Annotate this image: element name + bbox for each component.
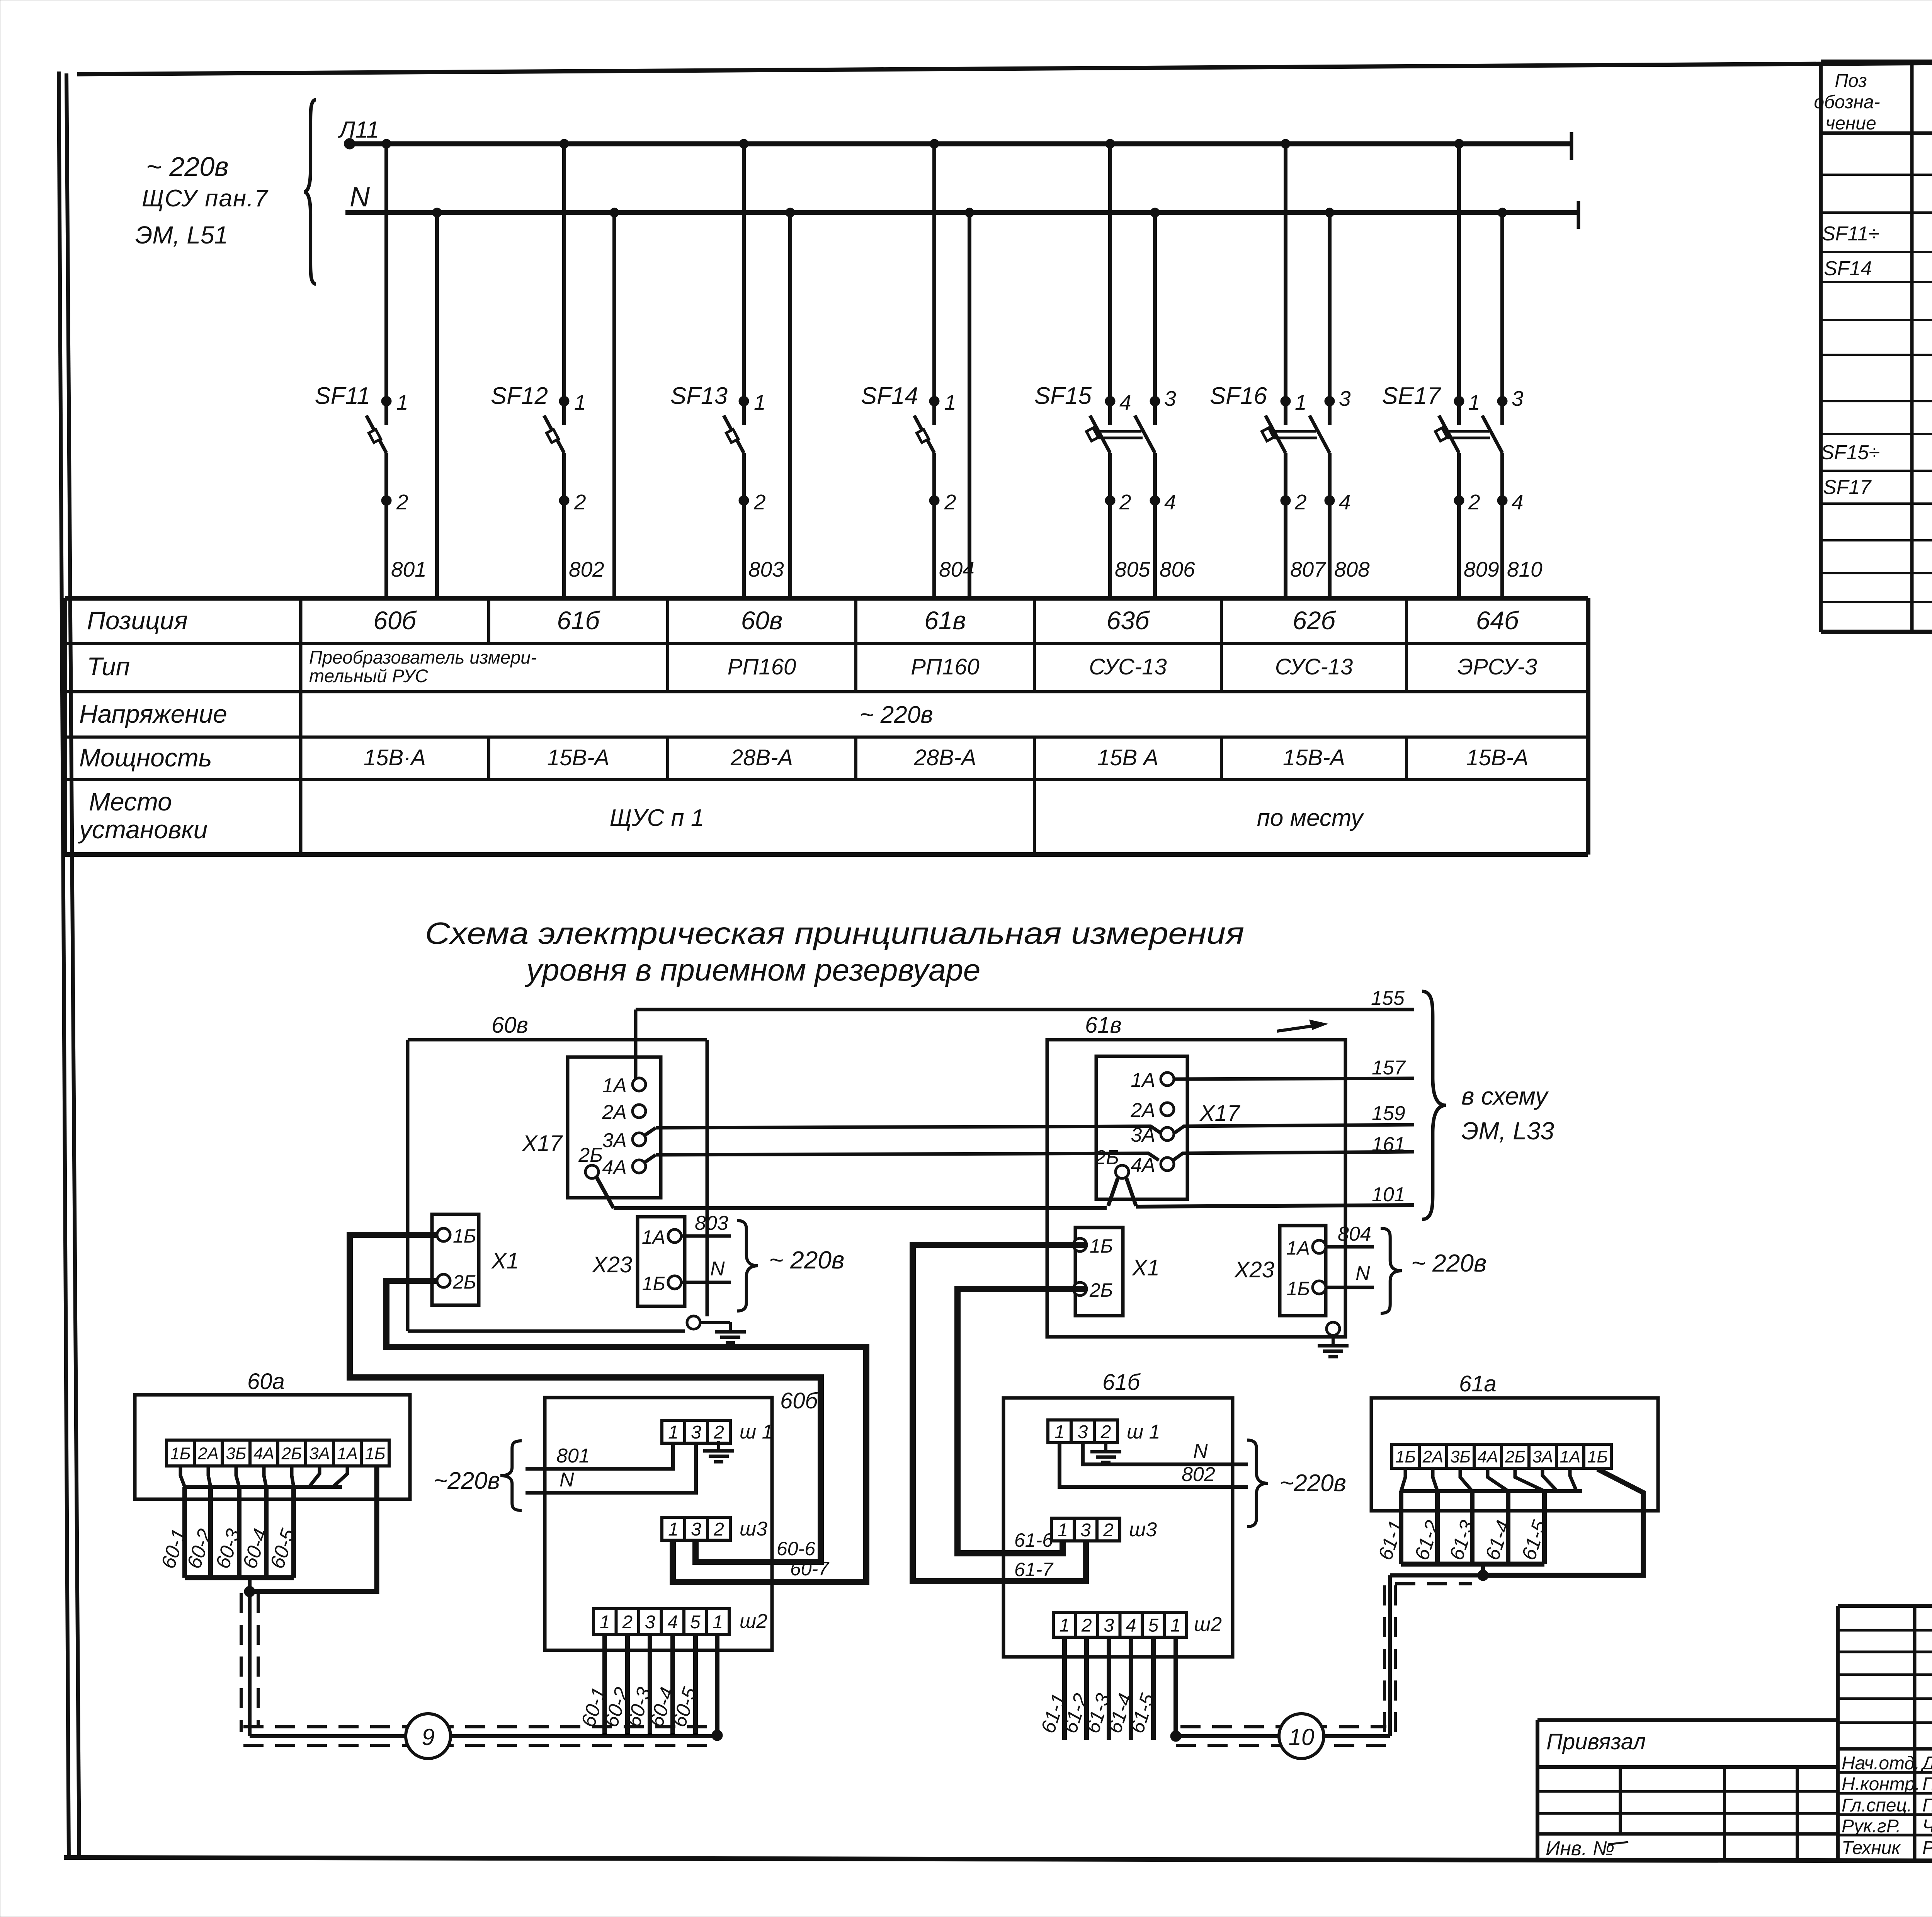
- svg-text:N: N: [560, 1469, 574, 1491]
- svg-text:4А: 4А: [602, 1156, 627, 1179]
- X17-61в pin 2Б: [1116, 1165, 1129, 1178]
- svg-text:3А: 3А: [309, 1444, 330, 1463]
- svg-text:10: 10: [1289, 1724, 1315, 1750]
- svg-text:1: 1: [1058, 1520, 1068, 1541]
- wire 61-1 from 61а: [1399, 1491, 1403, 1564]
- wire 155: [634, 1010, 638, 1078]
- svg-text:установки: установки: [78, 815, 207, 844]
- svg-text:61в: 61в: [1085, 1013, 1122, 1038]
- wire 61-4 drop: [1129, 1637, 1133, 1740]
- breaker SF13 N drop wire: [788, 213, 792, 598]
- svg-text:1Б: 1Б: [170, 1444, 190, 1463]
- svg-text:1: 1: [754, 390, 766, 414]
- svg-text:Чубова: Чубова: [1922, 1816, 1932, 1837]
- terminal strip ш3 of 61б: [1051, 1518, 1120, 1541]
- svg-text:1Б: 1Б: [1395, 1447, 1416, 1466]
- svg-text:2: 2: [1103, 1520, 1114, 1541]
- svg-text:809: 809: [1464, 557, 1499, 581]
- wire 61-3 drop: [1107, 1637, 1111, 1740]
- svg-text:Радионова: Радионова: [1922, 1838, 1932, 1858]
- terminal strip of 60а: [167, 1440, 389, 1466]
- svg-text:1Б: 1Б: [1287, 1278, 1310, 1299]
- svg-text:3А: 3А: [1131, 1124, 1155, 1146]
- svg-text:60-6: 60-6: [777, 1538, 815, 1559]
- svg-text:3: 3: [691, 1422, 701, 1443]
- block 61б outline: [1003, 1398, 1233, 1657]
- X17-61в pin 2А: [1161, 1103, 1174, 1116]
- brace 220v 61б: [1247, 1440, 1268, 1527]
- svg-text:803: 803: [695, 1212, 728, 1234]
- svg-text:5: 5: [1148, 1615, 1158, 1636]
- svg-text:15В-А: 15В-А: [1466, 745, 1528, 770]
- svg-text:60б: 60б: [373, 606, 417, 635]
- connector X1 of 61в: [1075, 1227, 1123, 1316]
- X17-61в pin 1А: [1161, 1073, 1174, 1086]
- frame left outer line: [59, 72, 69, 1858]
- svg-text:61-7: 61-7: [1014, 1559, 1054, 1580]
- wire ш2-1 to cable junction 10: [1173, 1637, 1178, 1736]
- svg-text:803: 803: [748, 557, 784, 581]
- breaker SE17 right pole drop: [1500, 213, 1504, 425]
- svg-text:SF14: SF14: [861, 383, 918, 409]
- X1-61в pin 1Б: [1073, 1238, 1087, 1251]
- inventory table grid: [1537, 1790, 1838, 1793]
- svg-text:SF13: SF13: [670, 383, 728, 409]
- svg-text:~220в: ~220в: [1280, 1470, 1346, 1496]
- 60а internal harness: [180, 1466, 185, 1487]
- junction SE17 on N: [1498, 208, 1507, 217]
- svg-text:4: 4: [1119, 390, 1131, 414]
- SF14 pin 2 dot: [929, 495, 939, 506]
- block 61в outline: [1047, 1040, 1345, 1337]
- block 61а outline: [1371, 1398, 1658, 1511]
- svg-text:15В·А: 15В·А: [364, 745, 426, 770]
- breaker SF11 N drop wire: [435, 213, 439, 598]
- svg-text:807: 807: [1290, 557, 1327, 581]
- svg-text:SF15÷: SF15÷: [1821, 441, 1880, 464]
- wire 60-2 from 60а: [208, 1487, 213, 1578]
- svg-text:60а: 60а: [247, 1369, 285, 1394]
- svg-text:N: N: [1193, 1440, 1208, 1462]
- svg-text:2Б: 2Б: [452, 1271, 476, 1293]
- terminal strip ш1 of 61б: [1048, 1420, 1117, 1443]
- svg-text:ЩУС п 1: ЩУС п 1: [610, 805, 704, 831]
- X1-60в pin 1Б: [437, 1228, 450, 1241]
- svg-text:SF11÷: SF11÷: [1822, 223, 1879, 245]
- svg-text:61а: 61а: [1459, 1371, 1497, 1396]
- svg-text:2: 2: [396, 490, 408, 514]
- svg-text:ЭМ, L33: ЭМ, L33: [1461, 1117, 1554, 1145]
- svg-text:~ 220в: ~ 220в: [1411, 1249, 1486, 1277]
- wire N to X23: [681, 1281, 731, 1284]
- wire 804 to X23: [1326, 1245, 1374, 1249]
- frame top line: [77, 59, 1932, 74]
- junction SF13 on Л11: [739, 139, 748, 148]
- svg-text:810: 810: [1507, 557, 1543, 581]
- svg-text:2: 2: [753, 490, 766, 514]
- bus Л11 end tick: [1570, 132, 1573, 160]
- ground ш1 60б: [717, 1443, 720, 1450]
- svg-text:X23: X23: [1234, 1257, 1274, 1282]
- svg-text:~ 220в: ~ 220в: [860, 701, 933, 728]
- 60а gather bus: [185, 1575, 294, 1580]
- svg-text:~ 220в: ~ 220в: [769, 1246, 844, 1274]
- junction SF16 on Л11: [1281, 139, 1290, 148]
- breaker SF16 release square: [1262, 428, 1274, 441]
- svg-text:1Б: 1Б: [1090, 1235, 1113, 1257]
- X1-61в pin 2Б: [1073, 1282, 1087, 1296]
- svg-text:806: 806: [1160, 557, 1195, 581]
- svg-text:3А: 3А: [1532, 1447, 1553, 1466]
- svg-text:1Б: 1Б: [642, 1273, 665, 1294]
- svg-text:28В-А: 28В-А: [730, 745, 793, 770]
- junction SF12 N bus: [610, 208, 619, 217]
- svg-text:SF17: SF17: [1823, 476, 1872, 499]
- terminal strip of 61а: [1392, 1444, 1611, 1468]
- svg-text:2Б: 2Б: [1094, 1146, 1119, 1169]
- svg-text:1: 1: [1170, 1615, 1181, 1636]
- svg-text:3А: 3А: [602, 1129, 627, 1152]
- svg-text:2: 2: [1468, 490, 1480, 514]
- breaker SE17 left pole drop: [1457, 144, 1461, 425]
- X17-60в pin 4А: [633, 1160, 646, 1173]
- wire 60-5 from 60а: [291, 1487, 296, 1578]
- svg-text:1А: 1А: [642, 1226, 665, 1248]
- svg-text:1А: 1А: [1286, 1237, 1310, 1259]
- X17-60в pin 2Б: [585, 1165, 599, 1178]
- svg-text:X1: X1: [491, 1248, 519, 1273]
- svg-text:3: 3: [1078, 1422, 1088, 1442]
- svg-text:ЭРСУ-3: ЭРСУ-3: [1458, 654, 1537, 679]
- svg-text:61б: 61б: [1102, 1370, 1141, 1395]
- svg-text:3Б: 3Б: [226, 1444, 246, 1463]
- svg-text:1А: 1А: [602, 1074, 627, 1097]
- svg-text:804: 804: [939, 557, 975, 581]
- svg-text:2: 2: [1119, 490, 1131, 514]
- svg-text:15В-А: 15В-А: [1283, 745, 1345, 770]
- wire N into 60б: [526, 1443, 696, 1493]
- wire 61-2 from 61а: [1435, 1491, 1440, 1564]
- breaker SF14 contact blade with release: [914, 415, 934, 453]
- junction SF11 on Л11: [382, 139, 391, 148]
- junction cable 10 right: [1478, 1570, 1488, 1581]
- svg-text:Тип: Тип: [87, 652, 130, 681]
- wire 801 into 60б: [526, 1443, 673, 1469]
- svg-text:СУС-13: СУС-13: [1275, 654, 1353, 679]
- svg-text:804: 804: [1338, 1223, 1371, 1245]
- SF12 pin 2 dot: [559, 495, 569, 506]
- bus N end tick: [1577, 201, 1580, 229]
- breaker SF12 N drop wire: [612, 213, 616, 598]
- breaker SF15 crossbar: [1097, 430, 1141, 433]
- cable 10 marker: [1279, 1714, 1324, 1759]
- X23-60в pin 1Б: [668, 1276, 681, 1289]
- wire 157: [1174, 1078, 1414, 1079]
- junction cable 9 right end: [712, 1730, 723, 1741]
- svg-text:2А: 2А: [1130, 1099, 1155, 1122]
- svg-text:обозна-: обозна-: [1814, 92, 1880, 112]
- svg-text:X17: X17: [1199, 1101, 1241, 1126]
- svg-text:2А: 2А: [602, 1101, 627, 1124]
- svg-text:9: 9: [422, 1724, 434, 1750]
- breaker SE17 blades: [1439, 415, 1459, 453]
- svg-text:Привязал: Привязал: [1546, 1729, 1646, 1754]
- svg-text:Мощность: Мощность: [79, 743, 212, 772]
- svg-text:1: 1: [1295, 390, 1307, 414]
- svg-text:2: 2: [1100, 1422, 1111, 1442]
- svg-text:ш 1: ш 1: [740, 1421, 773, 1443]
- svg-text:15В-А: 15В-А: [547, 745, 609, 770]
- svg-text:60-7: 60-7: [790, 1558, 830, 1580]
- wire 60-4 from 60а: [264, 1487, 269, 1578]
- wire 60-7 route (X1-2Б to ш3-1): [386, 1281, 866, 1582]
- svg-text:SF11: SF11: [315, 383, 370, 409]
- X23-61в pin 1А: [1313, 1240, 1326, 1253]
- svg-text:X17: X17: [522, 1131, 563, 1156]
- ground ш1 61б: [1104, 1443, 1107, 1450]
- cable 10 route: [1176, 1734, 1390, 1738]
- svg-text:101: 101: [1372, 1183, 1405, 1206]
- svg-text:ш 1: ш 1: [1127, 1421, 1160, 1443]
- svg-text:уровня в приемном резервуар: уровня в приемном резервуаре: [524, 953, 980, 987]
- svg-text:61-6: 61-6: [1014, 1529, 1053, 1551]
- wire 61-5 from 61а: [1542, 1491, 1547, 1564]
- svg-text:1Б: 1Б: [1587, 1447, 1608, 1466]
- svg-text:60б: 60б: [780, 1388, 819, 1413]
- svg-text:4: 4: [1512, 490, 1524, 514]
- wire N to X23: [1326, 1286, 1374, 1289]
- svg-text:SE17: SE17: [1382, 383, 1441, 409]
- svg-text:802: 802: [1182, 1463, 1215, 1486]
- terminal strip ш2 of 61б: [1053, 1612, 1187, 1637]
- wire 60-3 drop: [648, 1634, 652, 1734]
- svg-text:3Б: 3Б: [1450, 1447, 1471, 1466]
- X17-61в pin 3А: [1161, 1127, 1174, 1141]
- junction SF16 on N: [1325, 208, 1334, 217]
- Привязал box: [1537, 1718, 1838, 1722]
- junction cable 10 left: [1170, 1731, 1181, 1742]
- breaker SF15 release square: [1087, 428, 1099, 441]
- X23-61в pin 1Б: [1313, 1281, 1326, 1294]
- connector X23 of 60в: [638, 1217, 685, 1306]
- svg-text:4: 4: [1164, 490, 1176, 514]
- wire 60-1 from 60а: [182, 1487, 187, 1578]
- wire ш2-1 to cable junction: [715, 1634, 719, 1734]
- svg-text:Попов: Попов: [1922, 1795, 1932, 1816]
- svg-text:в схему: в схему: [1461, 1082, 1549, 1110]
- svg-text:802: 802: [569, 557, 604, 581]
- svg-text:2Б: 2Б: [1505, 1447, 1526, 1466]
- svg-text:3: 3: [1512, 386, 1524, 410]
- block 60б outline: [545, 1398, 772, 1650]
- junction SE17 on Л11: [1454, 139, 1464, 148]
- SF11 pin 2 dot: [381, 495, 391, 506]
- svg-text:4А: 4А: [1478, 1447, 1498, 1466]
- chassis ground 60в: [687, 1316, 700, 1329]
- svg-text:3: 3: [1339, 386, 1351, 410]
- wire N into 61б: [1083, 1443, 1248, 1464]
- svg-text:801: 801: [391, 557, 427, 581]
- svg-text:ш3: ш3: [740, 1518, 767, 1540]
- X17-60в pin 1А: [633, 1078, 646, 1091]
- wire 60-1 drop: [602, 1634, 607, 1734]
- svg-text:Напряжение: Напряжение: [79, 700, 227, 728]
- junction cable 9: [244, 1586, 255, 1597]
- svg-text:3: 3: [1164, 386, 1176, 410]
- parts list table: [1821, 60, 1932, 64]
- breaker SF14 phase drop wire: [932, 144, 936, 425]
- X23-60в pin 1А: [668, 1229, 681, 1243]
- breaker SF16 right pole drop: [1328, 213, 1332, 425]
- svg-text:2Б: 2Б: [578, 1144, 603, 1166]
- svg-text:Гл.спец.: Гл.спец.: [1842, 1795, 1912, 1816]
- svg-text:60в: 60в: [492, 1013, 528, 1038]
- svg-text:ш2: ш2: [740, 1610, 767, 1633]
- cable 9 marker: [406, 1714, 451, 1759]
- svg-text:2: 2: [574, 490, 586, 514]
- wire 159 (3А-3А-159): [645, 1128, 656, 1135]
- block 60в outline: [408, 1038, 707, 1042]
- svg-text:63б: 63б: [1107, 606, 1150, 635]
- svg-text:2А: 2А: [197, 1444, 219, 1463]
- svg-text:1А: 1А: [1131, 1069, 1155, 1091]
- signature table grid: [1838, 1604, 1932, 1608]
- brace to scheme ЭМ L33: [1422, 991, 1446, 1219]
- breaker SF12 phase drop wire: [562, 144, 566, 425]
- svg-text:3: 3: [645, 1612, 655, 1633]
- svg-text:Позиция: Позиция: [87, 606, 188, 635]
- wire 161 (4А-4А-161): [645, 1155, 656, 1162]
- svg-text:Преобразователь измери-: Преобразователь измери-: [309, 647, 537, 667]
- svg-text:Л11: Л11: [338, 117, 379, 143]
- svg-text:1: 1: [396, 390, 408, 414]
- svg-text:61б: 61б: [557, 606, 600, 635]
- svg-text:Поз: Поз: [1835, 71, 1867, 91]
- svg-text:801: 801: [556, 1445, 590, 1467]
- bus Л11 start blob: [344, 138, 355, 149]
- wire 60-6 route (X1-1Б to ш3-3): [350, 1235, 821, 1562]
- junction SF15 on N: [1150, 208, 1160, 217]
- svg-text:808: 808: [1334, 557, 1370, 581]
- svg-text:ш2: ш2: [1194, 1613, 1222, 1636]
- svg-text:1: 1: [668, 1519, 679, 1540]
- svg-text:SF12: SF12: [491, 383, 548, 409]
- svg-text:2: 2: [622, 1612, 633, 1633]
- connector X23 of 61в: [1280, 1226, 1326, 1316]
- svg-text:157: 157: [1372, 1057, 1406, 1079]
- svg-text:2: 2: [713, 1422, 724, 1443]
- svg-text:1: 1: [668, 1422, 679, 1443]
- breaker SE17 release square: [1435, 428, 1447, 441]
- svg-text:1: 1: [1468, 390, 1480, 414]
- wire 61-1 drop: [1062, 1637, 1067, 1740]
- feed brace: [304, 100, 316, 284]
- svg-text:2: 2: [1294, 490, 1307, 514]
- svg-text:61в: 61в: [924, 606, 966, 635]
- svg-text:ЩСУ пан.7: ЩСУ пан.7: [142, 185, 269, 212]
- junction SF14 on Л11: [930, 139, 939, 148]
- svg-text:64б: 64б: [1476, 606, 1520, 635]
- block 60а outline: [135, 1395, 410, 1499]
- svg-text:159: 159: [1372, 1102, 1405, 1125]
- frame left inner line: [66, 73, 79, 1857]
- junction SF13 N bus: [786, 208, 795, 217]
- SF12 pin 1 dot: [559, 396, 569, 406]
- frame bottom line: [64, 1857, 1932, 1862]
- wire 61-3 from 61а: [1470, 1491, 1475, 1564]
- svg-text:Н.контр.: Н.контр.: [1842, 1774, 1920, 1794]
- bus Л11: [344, 141, 1571, 146]
- SF14 pin 1 dot: [929, 396, 939, 406]
- breaker SF13 contact blade with release: [724, 415, 744, 453]
- X17-60в pin 3А: [633, 1133, 646, 1146]
- svg-text:1: 1: [1054, 1422, 1065, 1442]
- svg-text:~ 220в: ~ 220в: [146, 152, 229, 182]
- svg-text:по месту: по месту: [1257, 805, 1364, 831]
- terminal strip ш1 of 60б: [662, 1420, 730, 1443]
- SF13 pin 1 dot: [739, 396, 749, 406]
- svg-text:1: 1: [600, 1612, 610, 1633]
- consumers table: [65, 596, 1588, 601]
- brace 220v 61в: [1381, 1228, 1402, 1313]
- X17-61в pin 4А: [1161, 1158, 1174, 1171]
- X1-60в pin 2Б: [437, 1274, 450, 1287]
- connector X17 of 61в: [1096, 1056, 1187, 1199]
- arrow mark on 61в: [1277, 1025, 1320, 1031]
- wire 101 (2Б-2Б-101): [597, 1177, 614, 1208]
- svg-text:SF16: SF16: [1210, 383, 1267, 409]
- svg-text:тельный РУС: тельный РУС: [309, 666, 429, 686]
- svg-text:3: 3: [1080, 1520, 1091, 1541]
- svg-text:Долотов: Долотов: [1920, 1753, 1932, 1774]
- terminal strip ш3 of 60б: [662, 1517, 730, 1540]
- wire 61-2 drop: [1084, 1637, 1089, 1740]
- svg-text:2Б: 2Б: [1089, 1279, 1113, 1301]
- svg-text:СУС-13: СУС-13: [1089, 654, 1167, 679]
- svg-text:161: 161: [1372, 1133, 1405, 1156]
- svg-text:1: 1: [1059, 1615, 1070, 1636]
- svg-text:РП160: РП160: [911, 654, 979, 679]
- breaker SF15 blades: [1090, 415, 1110, 453]
- svg-text:2Б: 2Б: [281, 1444, 302, 1463]
- svg-text:РП160: РП160: [728, 654, 796, 679]
- breaker SF11 phase drop wire: [384, 144, 388, 425]
- 61а gather bus: [1401, 1562, 1544, 1567]
- svg-text:2: 2: [713, 1519, 724, 1540]
- svg-text:60в: 60в: [741, 606, 783, 635]
- svg-text:Попов: Попов: [1922, 1774, 1932, 1794]
- svg-text:805: 805: [1115, 557, 1150, 581]
- svg-text:Рук.гР.: Рук.гР.: [1842, 1816, 1901, 1837]
- svg-text:~220в: ~220в: [434, 1468, 500, 1494]
- breaker SF12 contact blade with release: [544, 415, 564, 453]
- svg-text:N: N: [350, 182, 370, 213]
- svg-text:1А: 1А: [1560, 1447, 1581, 1466]
- connector X17 of 60в: [568, 1057, 661, 1198]
- svg-text:1Б: 1Б: [453, 1225, 476, 1247]
- breaker SF13 phase drop wire: [742, 144, 746, 425]
- svg-text:чение: чение: [1825, 113, 1876, 134]
- svg-text:4: 4: [1126, 1615, 1136, 1636]
- wire 61-4 from 61а: [1506, 1491, 1510, 1564]
- svg-text:2: 2: [944, 490, 956, 514]
- svg-text:Нач.отд.: Нач.отд.: [1842, 1753, 1920, 1774]
- brace 220v 60в: [737, 1221, 758, 1311]
- junction SF15 on Л11: [1105, 139, 1115, 148]
- wire 61-6 route (X1-2Б to ш3-1): [957, 1289, 1087, 1553]
- svg-text:1: 1: [574, 390, 586, 414]
- svg-text:1Б: 1Б: [365, 1444, 385, 1463]
